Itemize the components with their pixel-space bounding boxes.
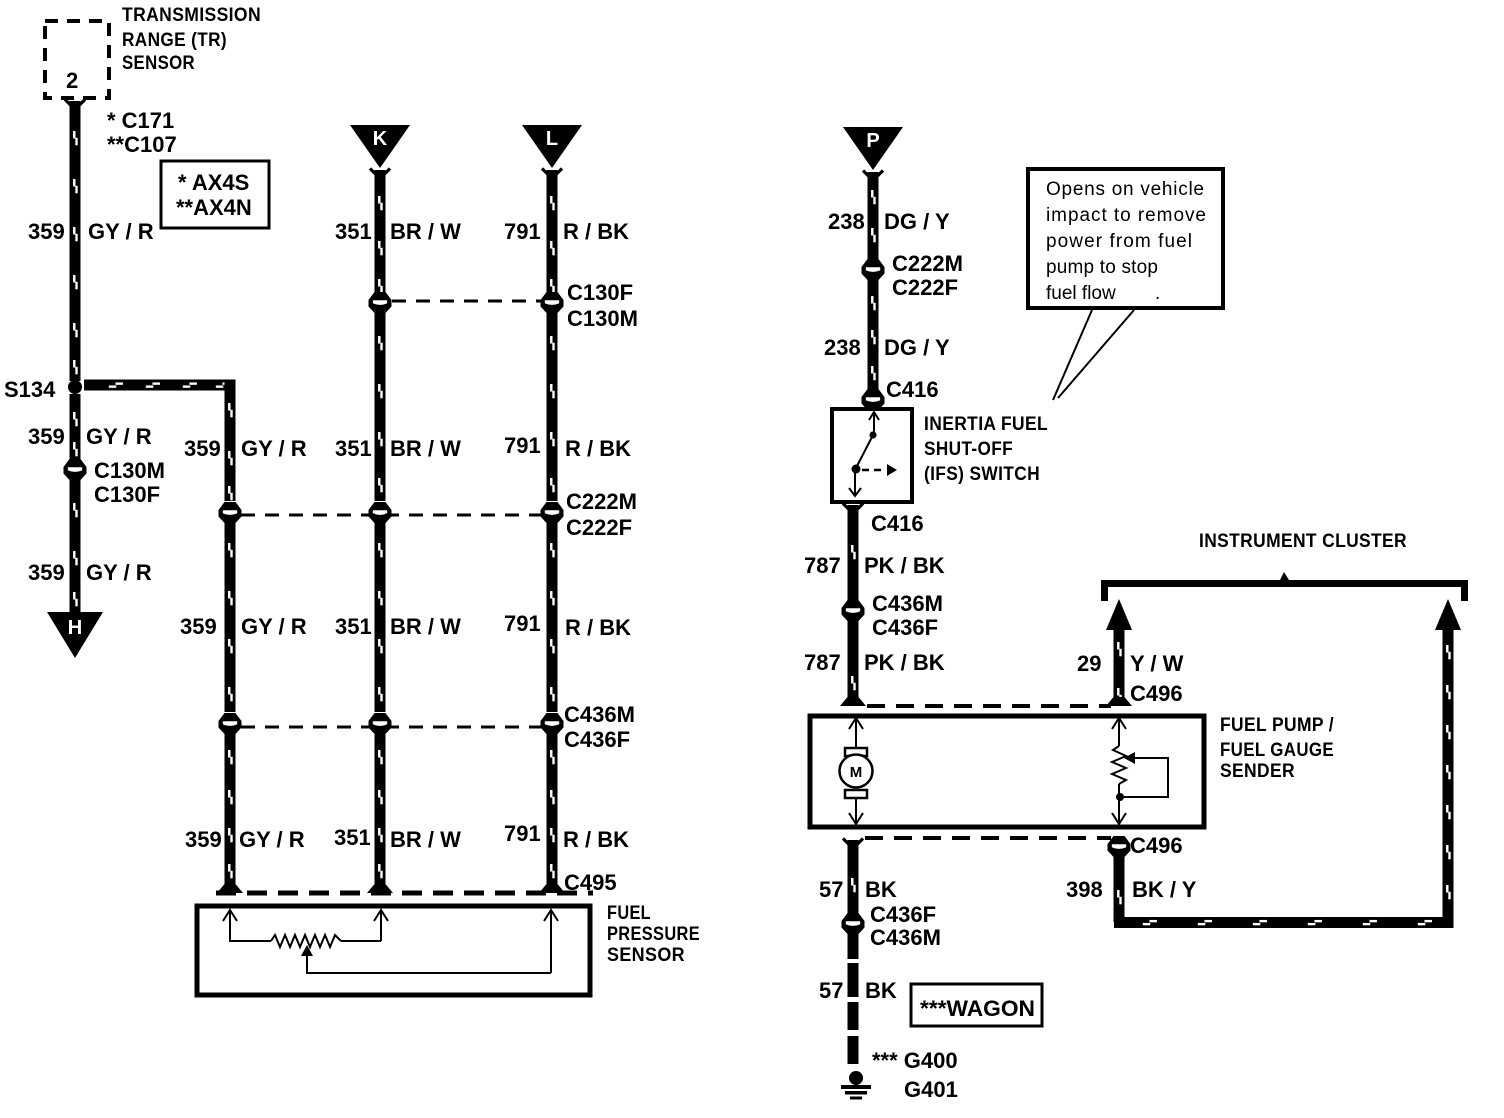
svg-text:C436F: C436F [564, 727, 630, 752]
svg-text:359: 359 [185, 827, 222, 852]
svg-text:GY / R: GY / R [241, 614, 307, 639]
svg-text:FUEL GAUGE: FUEL GAUGE [1220, 740, 1334, 761]
svg-text:PK / BK: PK / BK [864, 553, 945, 578]
svg-text:C130M: C130M [94, 458, 165, 483]
svg-text:SENSOR: SENSOR [122, 53, 195, 74]
svg-text:359: 359 [184, 436, 221, 461]
svg-text:57: 57 [819, 978, 843, 1003]
svg-text:FUEL PUMP /: FUEL PUMP / [1220, 715, 1334, 736]
svg-text:H: H [68, 617, 82, 639]
svg-text:C436M: C436M [872, 591, 943, 616]
svg-text:C436F: C436F [872, 615, 938, 640]
svg-text:238: 238 [824, 335, 861, 360]
svg-text:359: 359 [28, 560, 65, 585]
svg-text:impact to remove: impact to remove [1046, 205, 1206, 226]
svg-text:787: 787 [804, 553, 841, 578]
svg-text:INSTRUMENT CLUSTER: INSTRUMENT CLUSTER [1199, 531, 1407, 552]
svg-text:pump to stop: pump to stop [1046, 257, 1158, 278]
svg-text:C496: C496 [1130, 833, 1183, 858]
svg-text:359: 359 [28, 219, 65, 244]
svg-text:R / BK: R / BK [563, 219, 629, 244]
svg-text:GY / R: GY / R [239, 827, 305, 852]
svg-text:C222M: C222M [566, 489, 637, 514]
svg-text:351: 351 [335, 219, 372, 244]
svg-text:BR / W: BR / W [390, 827, 461, 852]
svg-text:BR / W: BR / W [390, 614, 461, 639]
svg-text:(IFS) SWITCH: (IFS) SWITCH [924, 464, 1040, 485]
svg-text:*** G400: *** G400 [872, 1048, 958, 1073]
svg-text:PRESSURE: PRESSURE [607, 924, 700, 945]
svg-text:351: 351 [335, 436, 372, 461]
svg-text:Y / W: Y / W [1130, 651, 1184, 676]
svg-text:R / BK: R / BK [565, 615, 631, 640]
svg-text:BK: BK [865, 978, 897, 1003]
svg-text:R / BK: R / BK [565, 436, 631, 461]
svg-text:G401: G401 [904, 1077, 958, 1102]
svg-text:P: P [866, 130, 879, 152]
svg-text:M: M [850, 764, 863, 781]
svg-text:29: 29 [1077, 651, 1101, 676]
svg-text:GY / R: GY / R [88, 219, 154, 244]
svg-text:C416: C416 [871, 511, 924, 536]
svg-text:fuel flow: fuel flow [1046, 283, 1116, 304]
svg-text:C222M: C222M [892, 251, 963, 276]
svg-text:L: L [546, 128, 558, 150]
svg-text:791: 791 [504, 433, 541, 458]
svg-text:2: 2 [66, 68, 78, 93]
svg-text:C130F: C130F [94, 482, 160, 507]
svg-text:C130F: C130F [567, 280, 633, 305]
svg-text:398: 398 [1066, 877, 1103, 902]
svg-text:787: 787 [804, 650, 841, 675]
svg-text:**AX4N: **AX4N [176, 195, 252, 220]
svg-text:57: 57 [819, 877, 843, 902]
svg-text:DG / Y: DG / Y [884, 209, 950, 234]
svg-text:S134: S134 [4, 377, 56, 402]
svg-text:C416: C416 [886, 377, 939, 402]
svg-text:BR / W: BR / W [390, 219, 461, 244]
svg-text:SENDER: SENDER [1220, 761, 1295, 782]
svg-text:359: 359 [28, 424, 65, 449]
svg-text:.: . [1155, 283, 1160, 304]
svg-text:791: 791 [504, 821, 541, 846]
svg-text:RANGE (TR): RANGE (TR) [122, 30, 227, 51]
svg-text:238: 238 [828, 209, 865, 234]
svg-text:SHUT-OFF: SHUT-OFF [924, 439, 1013, 460]
svg-text:359: 359 [180, 614, 217, 639]
svg-text:* AX4S: * AX4S [178, 170, 249, 195]
svg-text:FUEL: FUEL [607, 903, 651, 924]
svg-text:Opens on vehicle: Opens on vehicle [1046, 179, 1204, 200]
svg-text:DG / Y: DG / Y [884, 335, 950, 360]
svg-text:BK / Y: BK / Y [1132, 877, 1197, 902]
svg-text:351: 351 [334, 825, 371, 850]
svg-text:TRANSMISSION: TRANSMISSION [122, 5, 261, 26]
svg-text:GY / R: GY / R [86, 424, 152, 449]
svg-text:351: 351 [335, 614, 372, 639]
svg-text:SENSOR: SENSOR [607, 945, 685, 966]
svg-text:* C171: * C171 [107, 108, 174, 133]
svg-text:C436M: C436M [870, 925, 941, 950]
svg-text:C130M: C130M [567, 306, 638, 331]
svg-text:791: 791 [504, 219, 541, 244]
svg-text:BR / W: BR / W [390, 436, 461, 461]
svg-text:INERTIA FUEL: INERTIA FUEL [924, 414, 1048, 435]
svg-text:power from fuel: power from fuel [1046, 231, 1192, 252]
svg-text:K: K [373, 128, 388, 150]
svg-text:***WAGON: ***WAGON [920, 996, 1035, 1021]
svg-text:GY / R: GY / R [241, 436, 307, 461]
svg-text:C436F: C436F [870, 902, 936, 927]
svg-text:C222F: C222F [566, 515, 632, 540]
svg-text:791: 791 [504, 611, 541, 636]
svg-text:**C107: **C107 [107, 132, 177, 157]
svg-text:GY / R: GY / R [86, 560, 152, 585]
svg-text:C496: C496 [1130, 681, 1183, 706]
svg-text:R / BK: R / BK [563, 827, 629, 852]
svg-text:C436M: C436M [564, 702, 635, 727]
svg-text:C222F: C222F [892, 275, 958, 300]
svg-text:PK / BK: PK / BK [864, 650, 945, 675]
svg-text:BK: BK [865, 877, 897, 902]
